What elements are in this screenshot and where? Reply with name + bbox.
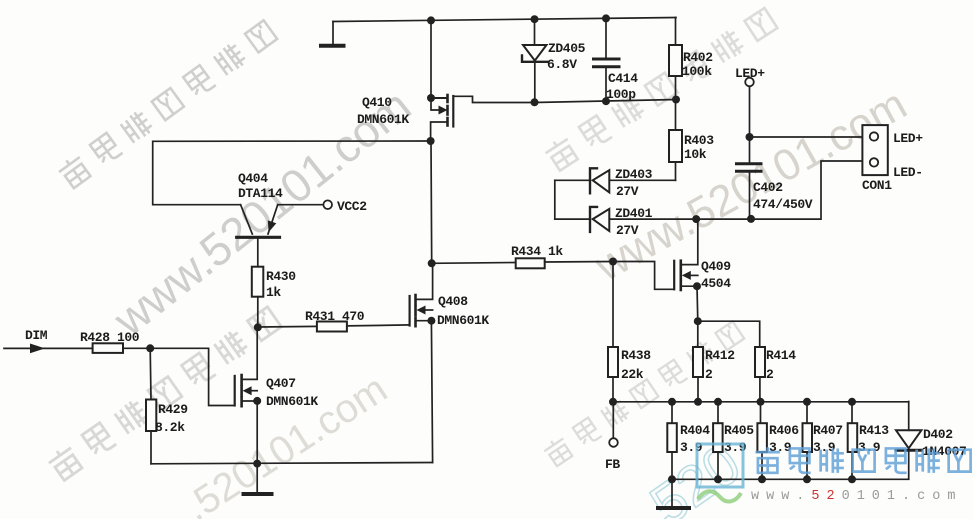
node top rail B [531,15,539,23]
watermark blue 家电维修资料网 row [755,447,970,473]
svg-text:8.2k: 8.2k [155,420,185,435]
svg-text:ZD401: ZD401 [615,206,653,221]
resistor R406 [757,402,767,480]
watermark teal rectangle [697,444,743,487]
zener ZD405 [522,19,548,102]
node gate line A [531,98,539,106]
svg-text:FB: FB [605,457,620,472]
node zener line A [692,215,700,223]
svg-text:D402: D402 [923,427,953,442]
terminal VCC2 [323,200,332,209]
node Q410 source [427,137,435,145]
wire gate line Q410 [535,100,677,103]
transistor Q408 [410,263,433,326]
svg-text:6.8V: 6.8V [547,57,577,72]
resistor R403 [669,100,682,181]
svg-text:DMN601K: DMN601K [437,313,489,328]
resistor R430 [252,267,263,328]
node R430 bottom [254,323,262,331]
svg-text:Q409: Q409 [701,259,731,274]
transistor Q410 [431,95,535,141]
svg-text:R414: R414 [766,348,796,363]
node bus R438 [609,398,617,406]
svg-text:10k: 10k [684,147,707,162]
watermark green squiggle [698,491,741,501]
node bus R407 [803,398,811,406]
wire Q407 source down [256,401,258,464]
svg-text:3.9: 3.9 [680,440,703,455]
svg-text:Q404: Q404 [238,171,268,186]
svg-text:DIM: DIM [25,328,48,343]
svg-text:R403: R403 [684,133,714,148]
wire LED+ to CON1 [750,136,863,138]
node bottom-left rail [253,460,261,468]
svg-text:R407: R407 [813,423,843,438]
svg-text:ZD405: ZD405 [548,41,586,56]
svg-text:C402: C402 [753,180,783,195]
watermark 家电维修资料网 bottom-left [46,305,282,482]
node top rail A [427,16,435,24]
resistor R412 [693,321,703,401]
node lower bus R404 [668,475,676,483]
svg-text:27V: 27V [616,223,639,238]
arrow DIM [30,344,45,354]
node LED+ [746,133,754,141]
svg-text:R405: R405 [724,423,754,438]
node R412 top [694,317,702,325]
ground (bottom left) [244,464,272,494]
resistor R402 [669,18,682,100]
svg-text:DTA114: DTA114 [238,186,283,201]
svg-text:R402: R402 [683,50,713,65]
svg-text:DMN601K: DMN601K [266,394,318,409]
wire node to Q407 gate [150,348,234,405]
resistor R404 [667,402,677,480]
svg-text:Q407: Q407 [266,376,296,391]
svg-text:www.520101.com: www.520101.com [751,489,962,504]
svg-text:R413: R413 [859,423,889,438]
resistor R431 [258,322,410,332]
svg-text:R406: R406 [769,423,799,438]
resistor R438 [608,262,618,402]
svg-text:2: 2 [705,367,713,382]
resistor R407 [803,402,813,480]
svg-text:Q408: Q408 [438,294,468,309]
svg-text:R438: R438 [621,348,651,363]
node bus R413 [848,398,856,406]
wire lower bus [672,478,909,480]
wire Q404 collector loop [153,141,431,205]
node R434 left [428,259,436,267]
wire drain Q410 vertical [430,20,432,98]
diode D402 [896,402,921,480]
resistor R428 [93,343,151,353]
svg-text:VCC2: VCC2 [337,199,367,214]
wire main bus [613,401,909,403]
node lower bus R405 [714,475,722,483]
zener ZD401 [555,207,696,232]
svg-text:474/450V: 474/450V [753,197,813,212]
svg-text:R428 100: R428 100 [80,330,140,345]
node bus R412 [694,398,702,406]
svg-text:27V: 27V [616,184,639,199]
node bus R405 [714,398,722,406]
svg-text:ZD403: ZD403 [615,167,653,182]
svg-text:100k: 100k [682,64,712,79]
watermark 家电维修资料网 bottom-center [542,319,745,467]
svg-text:R404: R404 [680,423,710,438]
svg-text:4504: 4504 [701,276,731,291]
node top rail C [602,14,610,22]
wire Q408 source down [431,321,432,463]
svg-text:LED+: LED+ [735,66,765,81]
node Q408 source [427,317,435,325]
svg-text:R434 1k: R434 1k [511,244,563,259]
ground (top left) [321,22,344,46]
svg-text:C414: C414 [608,71,638,86]
node lower bus R406 [758,475,766,483]
transistor Q407 [235,327,258,406]
transistor Q409 [613,219,698,321]
wire DIM input [4,347,93,349]
wire main vertical [430,141,433,263]
resistor R429 [146,348,156,464]
svg-text:1k: 1k [266,285,281,300]
svg-text:22k: 22k [621,367,644,382]
ground (bottom right) [658,479,689,508]
node Q407 source [253,397,261,405]
watermark top-left 家电维修资料网 [56,18,278,189]
svg-text:DMN601K: DMN601K [357,112,409,127]
svg-text:CON1: CON1 [862,178,892,193]
svg-text:2: 2 [766,367,774,382]
resistor R405 [713,402,723,480]
watermark 家电维修资料网 right-top [543,6,778,172]
wire top rail [333,18,676,22]
resistor R414 [698,321,765,401]
svg-text:Q410: Q410 [362,95,392,110]
wire zener left vertical [554,180,556,219]
node lower bus R413 [848,475,856,483]
wire zener line to C402 [696,161,862,219]
node bus R404 [668,398,676,406]
node lower bus R407 [803,475,811,483]
node gate line C [672,96,680,104]
terminal LED+ [745,78,754,137]
transistor Q404 [237,205,324,267]
svg-text:R430: R430 [266,269,296,284]
svg-text:LED-: LED- [893,165,923,180]
svg-text:R429: R429 [158,402,188,417]
svg-text:LED+: LED+ [893,131,923,146]
zener ZD403 [555,168,676,193]
node DIM [146,344,154,352]
node R434 right [609,258,617,266]
resistor R413 [848,402,858,480]
node gate line B [602,97,610,105]
capacitor C402 [737,137,762,219]
svg-text:R431 470: R431 470 [305,309,365,324]
capacitor C414 [594,18,620,101]
wire bottom-left rail [151,463,433,464]
node bus R406-R414 [757,398,765,406]
node zener line B [747,215,755,223]
svg-text:R412: R412 [705,348,735,363]
node Q409 source [693,282,701,290]
resistor R434 [432,258,613,268]
node Q410 drain [427,94,435,102]
terminal FB [609,402,618,447]
connector CON1 [862,125,887,175]
